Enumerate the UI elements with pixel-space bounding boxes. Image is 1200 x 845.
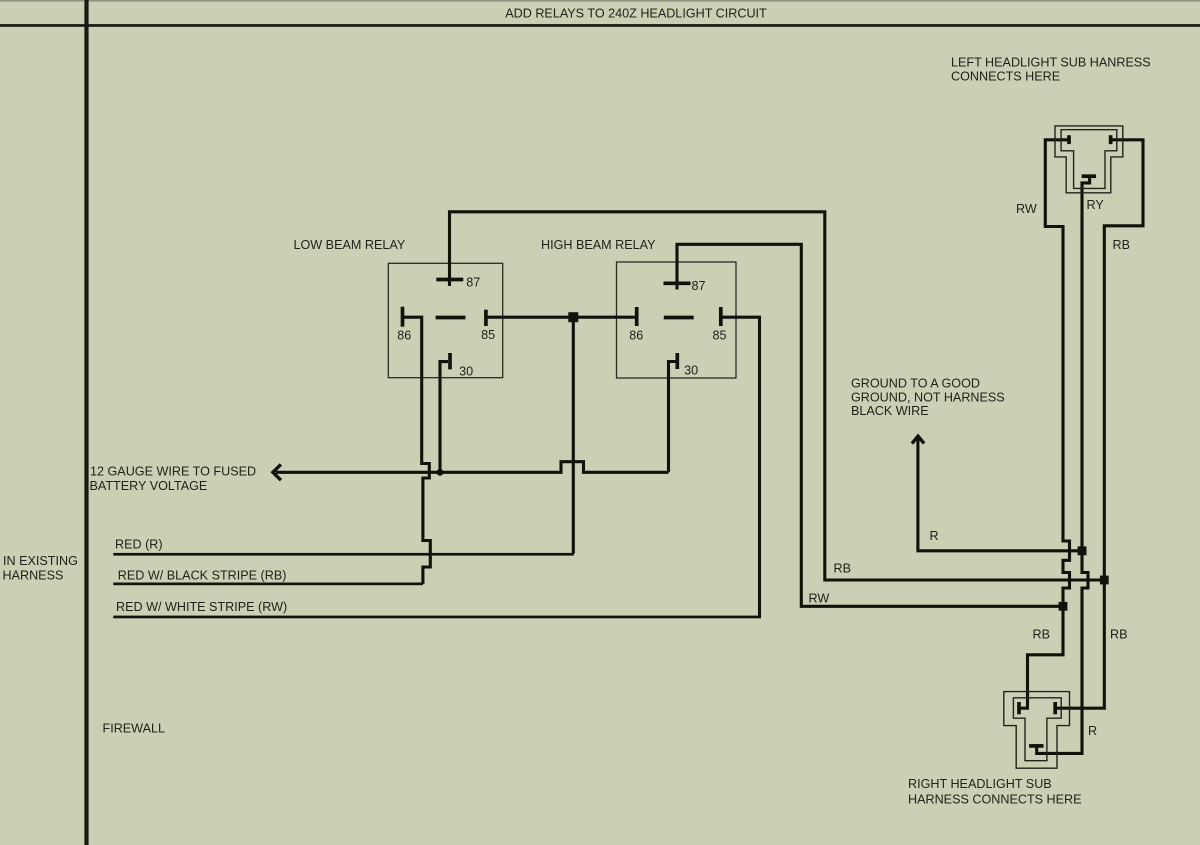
svg-text:IN EXISTING: IN EXISTING xyxy=(3,554,78,568)
svg-text:RB: RB xyxy=(1110,628,1128,642)
relay K1 pin 86 tick xyxy=(401,307,405,327)
wire K2-87 up, across, down, to RW junction xyxy=(677,244,1060,606)
battery feed wire with hop over junction-wire xyxy=(276,462,669,473)
right connector left pin tick xyxy=(1017,702,1021,714)
left connector center terminal bar xyxy=(1082,174,1097,178)
wire from inter-relay junction down to RED (R) line xyxy=(572,317,575,554)
svg-text:GROUND, NOT HARNESS: GROUND, NOT HARNESS xyxy=(851,391,1005,405)
relay K1 pin 85 tick xyxy=(484,310,488,326)
ground wire up-arrow run xyxy=(918,437,1082,551)
arrowhead ground xyxy=(913,436,923,442)
right headlight connector outer outline xyxy=(1004,692,1070,769)
svg-text:RY: RY xyxy=(1087,198,1105,212)
relay K2 pin 86 tick xyxy=(635,307,639,326)
svg-text:HIGH BEAM RELAY: HIGH BEAM RELAY xyxy=(541,238,656,252)
left connector left pin wire RW down with hops to right connector left pin xyxy=(1021,140,1070,708)
left headlight connector outer outline xyxy=(1055,126,1123,193)
relay K1 pin 30 tick xyxy=(448,353,452,369)
svg-text:RED W/ BLACK STRIPE (RB): RED W/ BLACK STRIPE (RB) xyxy=(118,568,287,582)
relay K1 contact dash xyxy=(436,316,466,320)
junction square between relays xyxy=(568,312,578,322)
wire K2-30 left then down to battery line xyxy=(669,362,678,473)
relay K1 box (low beam relay) xyxy=(388,263,502,377)
svg-text:87: 87 xyxy=(692,279,706,293)
wire K1-30 left then down to battery line junction xyxy=(440,362,448,470)
svg-text:R: R xyxy=(1088,724,1097,738)
svg-text:RED W/ WHITE STRIPE (RW): RED W/ WHITE STRIPE (RW) xyxy=(116,600,287,614)
svg-text:85: 85 xyxy=(481,328,495,342)
top edge cropped line xyxy=(0,0,1200,2)
right connector right pin tick xyxy=(1053,702,1057,714)
svg-text:HARNESS CONNECTS HERE: HARNESS CONNECTS HERE xyxy=(908,792,1082,806)
junction dot relay K1-30 to battery line xyxy=(437,469,444,476)
svg-text:86: 86 xyxy=(629,329,643,343)
svg-text:GROUND TO A GOOD: GROUND TO A GOOD xyxy=(851,377,980,391)
svg-text:30: 30 xyxy=(459,365,473,379)
relay K2 pin 30 tick xyxy=(675,353,679,369)
svg-text:FIREWALL: FIREWALL xyxy=(103,721,166,735)
title separator line xyxy=(0,24,1200,27)
left connector right pin wire RB down to right connector right pin xyxy=(1057,140,1143,708)
junction square RB line to right pin wire xyxy=(1100,576,1109,585)
firewall line xyxy=(84,0,88,845)
existing harness RED W/ WHITE STRIPE line xyxy=(113,616,761,619)
svg-text:RW: RW xyxy=(1016,202,1037,216)
relay K2 pin 87 terminal bar xyxy=(664,281,691,285)
svg-text:LEFT HEADLIGHT SUB HANRESS: LEFT HEADLIGHT SUB HANRESS xyxy=(951,56,1151,70)
junction square R to RY wire xyxy=(1078,546,1087,555)
svg-text:ADD RELAYS TO 240Z HEADLIGHT C: ADD RELAYS TO 240Z HEADLIGHT CIRCUIT xyxy=(505,7,767,21)
existing harness RED (R) line xyxy=(113,553,574,556)
svg-text:85: 85 xyxy=(713,329,727,343)
arrowhead battery feed xyxy=(273,466,280,479)
svg-text:R: R xyxy=(930,529,939,543)
wire K2-85 right then down to RW harness line xyxy=(721,317,760,617)
relay K1 pin 87 terminal bar xyxy=(436,278,463,282)
left connector right pin tick xyxy=(1109,135,1113,144)
svg-text:RIGHT HEADLIGHT SUB: RIGHT HEADLIGHT SUB xyxy=(908,777,1052,791)
svg-text:87: 87 xyxy=(466,276,480,290)
svg-text:86: 86 xyxy=(397,329,411,343)
existing harness RED W/ BLACK STRIPE line xyxy=(113,583,423,586)
svg-text:BATTERY VOLTAGE: BATTERY VOLTAGE xyxy=(90,479,208,493)
right connector center terminal bar xyxy=(1029,744,1043,748)
relay K2 contact dash xyxy=(664,316,694,320)
svg-text:RB: RB xyxy=(1033,628,1051,642)
relay K2 box (high beam relay) xyxy=(617,262,737,378)
junction square RW line to left pin wire xyxy=(1059,602,1068,611)
wire K1-85 to U2-86 xyxy=(486,316,637,319)
left connector left pin tick xyxy=(1067,135,1071,144)
svg-text:30: 30 xyxy=(684,364,698,378)
left connector center wire RY/R down to right connector center xyxy=(1037,178,1090,754)
svg-text:BLACK WIRE: BLACK WIRE xyxy=(851,404,929,418)
svg-text:RW: RW xyxy=(809,592,830,606)
svg-text:CONNECTS HERE: CONNECTS HERE xyxy=(951,69,1060,83)
left headlight connector inner outline xyxy=(1061,130,1117,189)
svg-text:12 GAUGE WIRE TO FUSED: 12 GAUGE WIRE TO FUSED xyxy=(90,464,256,478)
svg-text:LOW BEAM RELAY: LOW BEAM RELAY xyxy=(294,238,406,252)
svg-text:RED (R): RED (R) xyxy=(115,538,163,552)
wire K1-86 right then down with hops to RB harness line xyxy=(403,317,431,584)
relay K2 pin 85 tick xyxy=(719,307,723,326)
svg-text:RB: RB xyxy=(1113,238,1131,252)
wire K1-87 up, across top, down right side, to RB junction xyxy=(450,212,1101,580)
svg-text:RB: RB xyxy=(834,562,852,576)
right headlight connector inner outline xyxy=(1013,698,1061,761)
svg-text:HARNESS: HARNESS xyxy=(3,568,64,582)
